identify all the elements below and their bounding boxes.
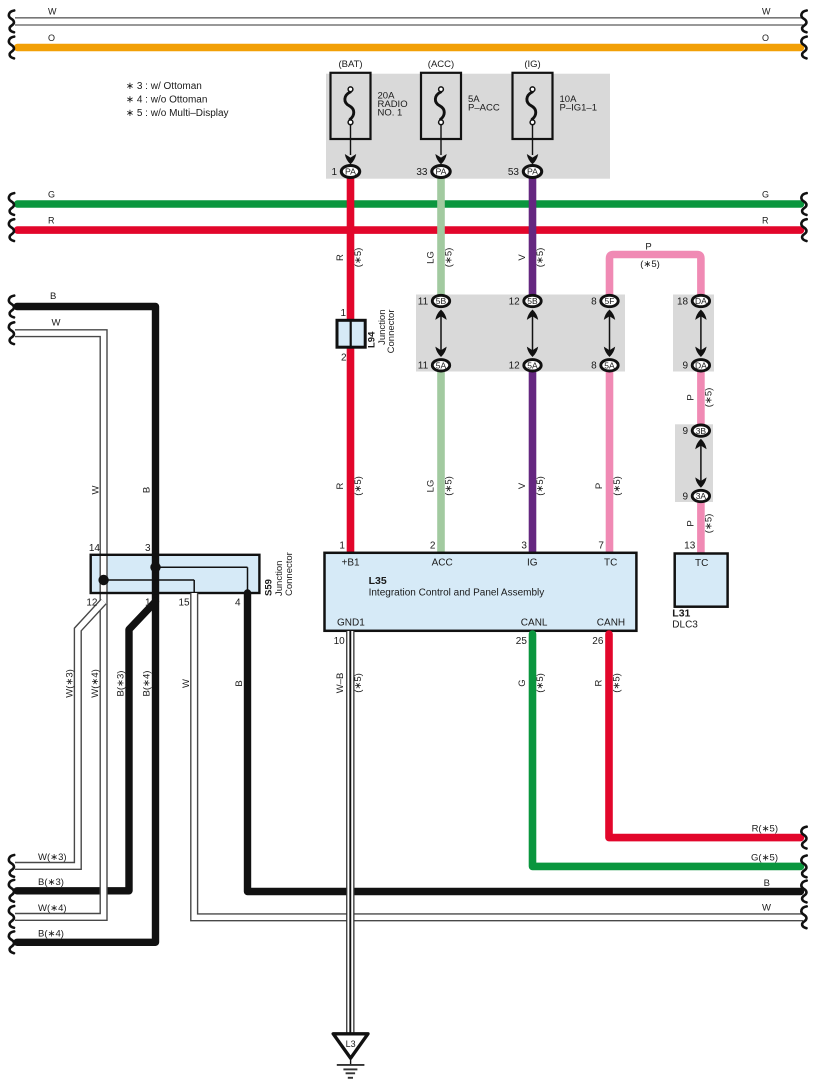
wire LG from 5A to L35 ACC: [437, 365, 445, 553]
svg-text:R: R: [335, 254, 346, 261]
svg-text:G: G: [517, 679, 528, 686]
svg-text:LG: LG: [426, 251, 437, 264]
bus G: [18, 200, 801, 208]
svg-text:R: R: [762, 215, 769, 225]
svg-text:3: 3: [145, 543, 151, 554]
svg-text:R(∗5): R(∗5): [752, 824, 778, 835]
svg-text:B(∗3): B(∗3): [116, 671, 127, 697]
connector 3B pin 9: [692, 425, 709, 436]
connector DA pin 18: [692, 295, 709, 306]
connector PA pin 33: [432, 166, 450, 178]
svg-text:4: 4: [235, 598, 241, 609]
junction block panel 3B/3A: [675, 424, 713, 502]
svg-text:NO. 1: NO. 1: [378, 108, 403, 119]
wire P from DA9 to 3B: [697, 365, 705, 430]
connector L31 DLC3: [675, 554, 728, 607]
svg-text:18: 18: [677, 296, 689, 307]
svg-text:5A: 5A: [527, 361, 538, 371]
svg-text:DA: DA: [695, 361, 707, 371]
wire W(*3) branch: [15, 602, 104, 866]
svg-text:7: 7: [598, 540, 604, 551]
svg-text:W–B: W–B: [335, 673, 346, 694]
svg-text:R: R: [335, 482, 346, 489]
svg-text:∗ 3 : w/ Ottoman: ∗ 3 : w/ Ottoman: [126, 81, 202, 92]
svg-text:(∗5): (∗5): [704, 514, 715, 534]
svg-text:LG: LG: [426, 480, 437, 493]
wire G CANL: [533, 634, 801, 866]
svg-text:GND1: GND1: [337, 617, 365, 628]
junction block panel DA: [673, 295, 714, 372]
svg-text:ACC: ACC: [432, 558, 453, 569]
svg-text:B: B: [141, 487, 152, 493]
svg-text:W(∗4): W(∗4): [90, 669, 101, 698]
svg-text:(∗5): (∗5): [535, 248, 546, 268]
svg-text:9: 9: [683, 361, 689, 372]
svg-text:PA: PA: [345, 167, 356, 177]
svg-text:W(∗3): W(∗3): [65, 669, 76, 698]
svg-text:9: 9: [683, 426, 689, 437]
svg-text:(IG): (IG): [524, 59, 540, 70]
svg-text:3A: 3A: [696, 491, 707, 501]
svg-text:11: 11: [418, 361, 429, 372]
svg-text:2: 2: [341, 352, 347, 363]
svg-text:11: 11: [418, 296, 429, 307]
arrow between DA/DA: [700, 312, 702, 356]
svg-text:IG: IG: [527, 558, 538, 569]
ECU L35 Integration Control and Panel Assembly: [325, 553, 637, 631]
connector 5B pin 12: [524, 295, 541, 306]
svg-text:P–IG1–1: P–IG1–1: [560, 102, 598, 113]
fuse block panel: [326, 74, 610, 179]
svg-text:3: 3: [521, 540, 527, 551]
svg-text:∗ 5 : w/o Multi–Display: ∗ 5 : w/o Multi–Display: [126, 108, 229, 119]
svg-text:B: B: [234, 680, 245, 686]
svg-text:W: W: [52, 318, 61, 329]
arrow between 5B/5A: [532, 312, 534, 356]
svg-text:PA: PA: [436, 167, 447, 177]
svg-text:Connector: Connector: [386, 310, 397, 354]
bus O: [18, 44, 801, 52]
svg-text:1: 1: [331, 167, 337, 178]
svg-text:(∗5): (∗5): [353, 476, 364, 496]
svg-text:12: 12: [509, 361, 521, 372]
svg-text:TC: TC: [604, 558, 617, 569]
svg-text:14: 14: [89, 543, 101, 554]
S59 internal link B pin3/1 to pin4: [156, 566, 248, 568]
svg-text:26: 26: [592, 636, 604, 647]
svg-text:L31: L31: [672, 608, 690, 620]
svg-text:W: W: [181, 679, 192, 688]
svg-text:5B: 5B: [527, 296, 538, 306]
ground L3 triangle: [333, 1034, 368, 1058]
wire V from PA53 to 5B: [529, 172, 537, 302]
connector 5F pin 8: [601, 295, 618, 306]
svg-text:G: G: [48, 189, 55, 199]
svg-text:B(∗4): B(∗4): [142, 671, 153, 697]
svg-text:1: 1: [340, 308, 346, 319]
S59 junction dot on B: [150, 562, 160, 572]
wire W from S59 pin15 to right edge: [194, 593, 803, 917]
svg-text:(∗5): (∗5): [535, 673, 546, 693]
wire W-B from GND1 to ground L3: [346, 631, 354, 1034]
svg-text:W: W: [90, 485, 101, 494]
connector 5A pin 8: [601, 360, 618, 371]
svg-text:B(∗4): B(∗4): [38, 929, 64, 940]
wire R from fuse BAT pin1 to L35 +B1: [347, 172, 355, 553]
svg-text:(∗5): (∗5): [704, 388, 715, 408]
svg-text:O: O: [48, 33, 55, 43]
svg-text:2: 2: [430, 540, 436, 551]
connector PA pin 53: [523, 166, 541, 178]
bus R: [18, 226, 801, 234]
S59 junction dot on W: [98, 575, 108, 585]
svg-text:(∗5): (∗5): [444, 476, 455, 496]
svg-text:8: 8: [591, 296, 597, 307]
ground symbol bars: [337, 1064, 365, 1066]
svg-text:(∗5): (∗5): [612, 673, 623, 693]
wire LG from PA33 to 5B: [437, 172, 445, 302]
svg-text:13: 13: [684, 540, 696, 551]
svg-text:5A: 5A: [436, 361, 447, 371]
svg-text:(∗5): (∗5): [353, 673, 364, 693]
svg-text:B: B: [764, 878, 770, 889]
svg-text:W: W: [762, 7, 771, 17]
svg-text:PA: PA: [527, 167, 538, 177]
wire P from 5A to L35 TC: [606, 365, 614, 553]
svg-text:5B: 5B: [436, 296, 447, 306]
svg-text:1: 1: [145, 598, 151, 609]
svg-text:V: V: [517, 254, 528, 261]
svg-text:L35: L35: [369, 575, 387, 587]
svg-text:G: G: [762, 189, 769, 199]
svg-text:5A: 5A: [604, 361, 615, 371]
connector 5A pin 11: [432, 360, 449, 371]
svg-text:9: 9: [683, 491, 689, 502]
wire R CANH: [609, 634, 801, 838]
svg-text:P–ACC: P–ACC: [468, 102, 500, 113]
wire P bridge TC: [610, 255, 701, 302]
svg-text:5F: 5F: [605, 296, 615, 306]
bus W (top): [15, 17, 803, 26]
svg-text:CANH: CANH: [597, 617, 625, 628]
svg-text:P: P: [645, 242, 651, 253]
connector 3A pin 9: [692, 490, 709, 501]
svg-text:33: 33: [416, 167, 428, 178]
svg-text:12: 12: [509, 296, 521, 307]
connector PA pin 1: [341, 166, 359, 178]
arrow between 3B/3A: [700, 441, 702, 486]
svg-text:P: P: [594, 483, 605, 489]
svg-text:B(∗3): B(∗3): [38, 877, 64, 888]
connector DA pin 9: [692, 360, 709, 371]
arrow between 5B/5A: [440, 312, 442, 356]
svg-text:8: 8: [591, 361, 597, 372]
svg-text:W(∗3): W(∗3): [38, 852, 67, 863]
svg-text:25: 25: [516, 636, 528, 647]
svg-text:G(∗5): G(∗5): [751, 852, 778, 863]
connector 5A pin 12: [524, 360, 541, 371]
svg-text:V: V: [517, 482, 528, 489]
wire B(*3) branch: [17, 602, 156, 891]
svg-text:Connector: Connector: [284, 552, 295, 596]
svg-text:1: 1: [339, 540, 345, 551]
svg-text:TC: TC: [695, 558, 708, 569]
svg-text:15: 15: [178, 598, 190, 609]
svg-text:CANL: CANL: [521, 617, 548, 628]
svg-text:W(∗4): W(∗4): [38, 903, 67, 914]
wire B top-left horizontal + vertical through S59 to B(*4): [17, 307, 156, 943]
svg-text:R: R: [594, 679, 605, 686]
svg-text:DLC3: DLC3: [672, 620, 698, 631]
svg-text:Integration Control and Panel: Integration Control and Panel Assembly: [369, 588, 545, 599]
svg-text:∗ 4 : w/o Ottoman: ∗ 4 : w/o Ottoman: [126, 95, 208, 106]
svg-text:P: P: [686, 520, 697, 526]
wire P from 3A to L31 pin13: [697, 496, 705, 554]
junction connector L94: [337, 320, 365, 347]
svg-text:O: O: [762, 33, 769, 43]
connector 5B pin 11: [432, 295, 449, 306]
wire V from 5A to L35 IG: [529, 365, 537, 553]
junction block panel 5B/5A: [416, 295, 625, 372]
svg-text:(∗5): (∗5): [353, 248, 364, 268]
svg-text:3B: 3B: [696, 426, 707, 436]
svg-text:12: 12: [86, 598, 98, 609]
svg-text:DA: DA: [695, 296, 707, 306]
svg-text:(ACC): (ACC): [428, 59, 454, 70]
svg-text:10: 10: [334, 636, 346, 647]
S59 internal link W pin14/12 to pin15: [104, 579, 195, 581]
svg-text:(∗5): (∗5): [535, 476, 546, 496]
svg-text:B: B: [50, 291, 56, 302]
svg-text:(∗5): (∗5): [640, 259, 660, 270]
svg-text:(BAT): (BAT): [338, 59, 362, 70]
svg-text:(∗5): (∗5): [612, 476, 623, 496]
svg-text:L3: L3: [346, 1039, 356, 1049]
arrow between 5F/5A: [609, 312, 611, 356]
svg-text:W: W: [48, 7, 57, 17]
svg-text:W: W: [762, 903, 771, 914]
svg-text:+B1: +B1: [342, 558, 361, 569]
svg-text:R: R: [48, 215, 55, 225]
wire W top-left horizontal + vertical through S59 to W(*4): [15, 333, 104, 917]
svg-text:P: P: [686, 394, 697, 400]
svg-text:(∗5): (∗5): [444, 248, 455, 268]
wire B from S59 pin4 to right edge: [248, 593, 801, 892]
svg-text:53: 53: [508, 167, 520, 178]
junction connector S59 fill: [91, 555, 260, 593]
